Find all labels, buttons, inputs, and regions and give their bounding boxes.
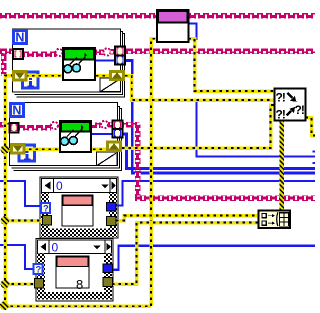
blue wire: frame1 element out, long line y=181: [116, 181, 315, 206]
array frame 2 index header: [38, 240, 112, 254]
right shift register loop1: [111, 72, 124, 80]
error wire: frame2 khaki out, up, long line y=222.5: [112, 223, 259, 285]
iteration terminal i of loop 2: [19, 145, 35, 161]
magenta chain: icon1 to right tunnel with curl: [95, 49, 104, 55]
blue tunnel frame1 right: [107, 203, 117, 212]
iteration terminal i of loop 1: [23, 72, 39, 88]
blue wire: subVI numeric out, down right side, long line to right edge: [189, 24, 316, 157]
build array node: [259, 211, 291, 229]
error wire: branch to frame1 khaki tunnel: [5, 219, 43, 223]
blue wire: frame2 index input from left edge: [0, 245, 34, 269]
blue wire: loop2 icon to right tunnel: [90, 133, 113, 135]
tunnel [] loop1 right magenta: [115, 47, 125, 56]
for-loop 2 shadow frames: [12, 107, 120, 169]
svg-text:N: N: [15, 31, 24, 45]
index tunnel ? frame1: [41, 203, 50, 215]
array frame 1 element cluster: [62, 195, 93, 226]
magenta chain: long wire y=51 right of loop1: [125, 48, 315, 54]
svg-text:?: ?: [43, 204, 49, 215]
error wire: subVI out to merge icon input 1: [189, 39, 275, 91]
error wire: left main vertical trunk: [5, 76, 13, 307]
blue wire: frame1 index input from left edge: [0, 181, 41, 206]
error wire: frame1 khaki out to long line y=215.5: [116, 216, 259, 221]
svg-text:8: 8: [76, 277, 83, 292]
array frame 2 outer box: [36, 239, 113, 302]
tunnel [] loop2 right magenta: [113, 121, 123, 130]
left shift register loop2: [12, 145, 25, 154]
error wire: loop2 shift register through wire: [10, 148, 107, 152]
svg-text:?!: ?!: [276, 91, 285, 105]
magenta chain: loop1 tunnel to icon1 with curl: [24, 51, 57, 57]
array frame 1 outer box: [40, 177, 118, 238]
svg-text:N: N: [12, 104, 21, 118]
count terminal N loop1: [14, 31, 27, 45]
tunnel [] loop1 left: [13, 49, 23, 59]
svg-text:?!: ?!: [276, 108, 285, 122]
subVI icon loop2 (glasses/read): [60, 121, 91, 152]
count terminal N loop2: [11, 104, 24, 118]
tunnel [] loop2 left: [10, 123, 19, 133]
error wire: merge icon bottom double wire to build node: [279, 120, 284, 211]
blue wire stubs at right edge: [313, 150, 316, 152]
merge errors icon ?!: [275, 89, 306, 122]
for-loop 1 shadow frames: [15, 32, 123, 95]
svg-text:0: 0: [56, 179, 63, 193]
array frame 1 index header: [42, 179, 117, 194]
index tunnel ? frame2: [34, 264, 43, 276]
blue tunnel frame2 right: [103, 264, 113, 273]
magenta chain: icon2 to right tunnel with curl: [91, 122, 101, 128]
array frame 1 checkered border: [41, 193, 49, 237]
for-loop 1 border: [13, 29, 121, 92]
magenta chain: left edge into loop1 tunnel: [0, 48, 14, 54]
array frame 2 checkered border: [37, 254, 45, 300]
error wire: long vertical up to subVI: [151, 39, 157, 307]
khaki tunnel frame2 left: [35, 279, 44, 289]
tunnel [] loop2 right blue: [113, 129, 123, 138]
tunnel [] loop1 right blue: [115, 56, 125, 65]
magenta chain: stub into loop2 left tunnel: [0, 122, 11, 128]
error wire: loop1 shift register through wire: [13, 74, 110, 78]
subVI icon loop1 (glasses/read): [63, 48, 95, 80]
magenta chain: loop2 tunnel out, down, long line y=198: [123, 122, 140, 128]
svg-text:?: ?: [36, 265, 42, 276]
array frame 2 element cluster with value 8: [56, 256, 89, 292]
error wire: branch to loop2 shift register: [5, 148, 11, 152]
svg-text:?!: ?!: [295, 103, 304, 117]
blue wire: frame2 element out, long line y=245.8: [112, 246, 315, 270]
khaki tunnel frame2 right: [103, 278, 113, 287]
magenta cluster-array chain: top long wire y=15: [0, 13, 157, 18]
blue wire: loop1 icon to right tunnel: [94, 60, 116, 62]
blue wire: loop2 tunnel out, down, long line y=168.5: [123, 134, 316, 169]
left shift register loop1: [14, 72, 27, 81]
error wire: loop1 right shift register to merge icon input 2: [125, 76, 275, 100]
error wire: branch to frame2 khaki tunnel: [5, 282, 35, 286]
wire junction balls on left trunk: [1, 145, 10, 154]
for-loop 2 border: [10, 103, 118, 166]
magenta chain: loop2 tunnel to icon2 with curl: [18, 125, 51, 130]
khaki tunnel frame1 right: [107, 217, 117, 226]
error wire: bottom run to long vertical: [4, 304, 151, 308]
error wire: loop2 right shift register to merge icon input 3: [122, 105, 275, 148]
svg-text:0: 0: [52, 240, 59, 254]
for-loop 2 page-fold corner: [97, 152, 118, 166]
khaki tunnel frame1 left: [43, 216, 52, 226]
blue wire: loop1 tunnel out, down, long line y=173: [125, 61, 316, 174]
for-loop 1 page-fold corner: [100, 78, 121, 92]
error wire: merge icon right output to edge: [306, 118, 316, 136]
subVI icon top center (violet banner): [157, 10, 189, 42]
right shift register loop2: [108, 142, 121, 151]
magenta chain: vertical drop at left edge: [1, 53, 7, 76]
